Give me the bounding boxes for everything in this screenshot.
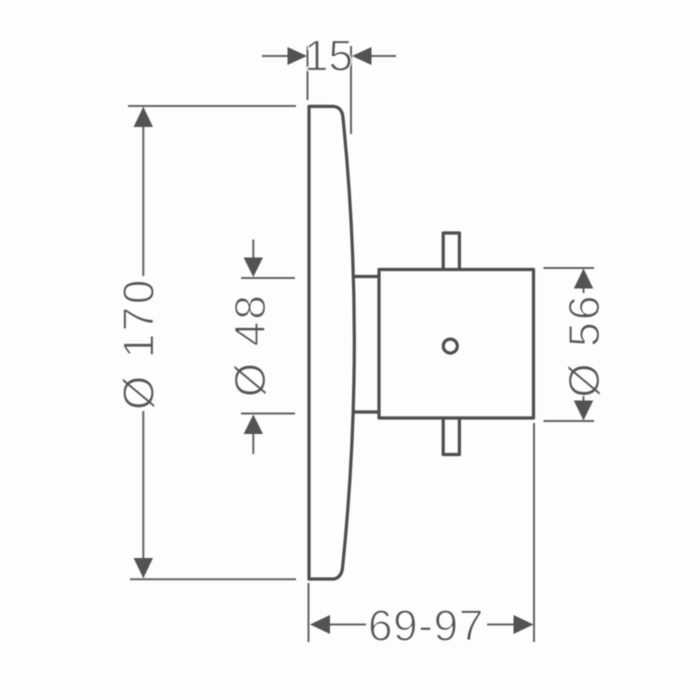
svg-text:Ø 48: Ø 48 [226, 293, 275, 397]
svg-text:15: 15 [304, 32, 353, 81]
svg-text:Ø 170: Ø 170 [115, 277, 164, 410]
svg-text:Ø 56: Ø 56 [560, 293, 609, 397]
svg-text:69-97: 69-97 [368, 602, 484, 651]
